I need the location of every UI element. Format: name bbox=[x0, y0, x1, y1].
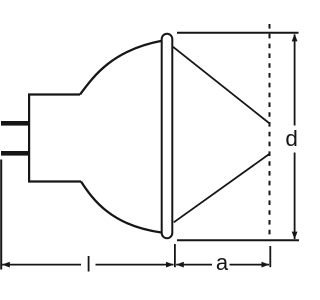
front rim (lens edge capsule) bbox=[162, 34, 173, 238]
extension line right (dimension a) bbox=[269, 246, 271, 267]
svg-text:a: a bbox=[216, 250, 229, 275]
reflector upper profile curve bbox=[80, 41, 162, 95]
pin 1 (top contact pin) bbox=[1, 121, 29, 126]
extension line at rim (shared by l and a) bbox=[174, 244, 176, 267]
svg-text:d: d bbox=[285, 126, 298, 151]
dashed projection line bbox=[269, 24, 271, 240]
dimension line d (vertical) bbox=[292, 34, 298, 240]
svg-text:l: l bbox=[86, 253, 91, 276]
pin 2 (bottom contact pin) bbox=[1, 151, 29, 156]
cone line lower (reflector opening) bbox=[174, 154, 269, 222]
lamp base (ceramic socket block) bbox=[29, 95, 81, 182]
extension line bottom (diameter d, lower) bbox=[177, 239, 299, 241]
reflector lower profile curve bbox=[81, 182, 162, 233]
cone line upper (reflector opening) bbox=[173, 47, 269, 123]
extension line left (overall length l) bbox=[0, 160, 2, 270]
dimension line l (horizontal with arrows) bbox=[2, 262, 174, 268]
dimension line a (horizontal with arrows) bbox=[176, 262, 269, 268]
extension line top (diameter d, upper) bbox=[177, 32, 299, 34]
